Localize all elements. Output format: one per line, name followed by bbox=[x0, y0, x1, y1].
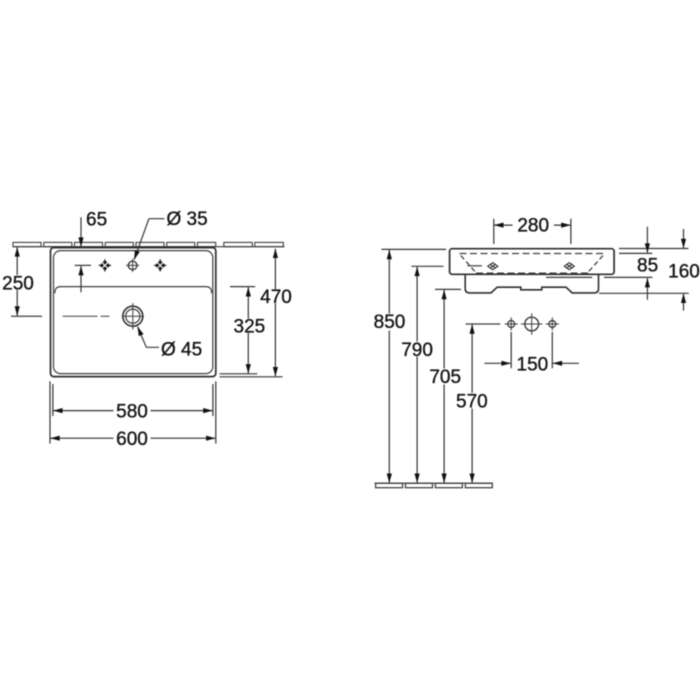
svg-text:160: 160 bbox=[668, 261, 700, 282]
svg-text:850: 850 bbox=[374, 312, 406, 333]
svg-text:250: 250 bbox=[2, 274, 34, 295]
svg-text:580: 580 bbox=[116, 402, 148, 423]
svg-text:325: 325 bbox=[234, 316, 266, 337]
svg-text:790: 790 bbox=[401, 340, 433, 361]
svg-text:Ø 35: Ø 35 bbox=[167, 209, 208, 230]
svg-text:150: 150 bbox=[517, 354, 549, 375]
svg-text:705: 705 bbox=[429, 367, 461, 388]
svg-text:Ø 45: Ø 45 bbox=[161, 339, 202, 360]
svg-text:85: 85 bbox=[637, 255, 658, 276]
svg-text:600: 600 bbox=[116, 429, 148, 450]
svg-text:570: 570 bbox=[456, 392, 488, 413]
svg-text:65: 65 bbox=[86, 210, 107, 231]
svg-text:280: 280 bbox=[517, 216, 549, 237]
svg-text:470: 470 bbox=[260, 287, 292, 308]
